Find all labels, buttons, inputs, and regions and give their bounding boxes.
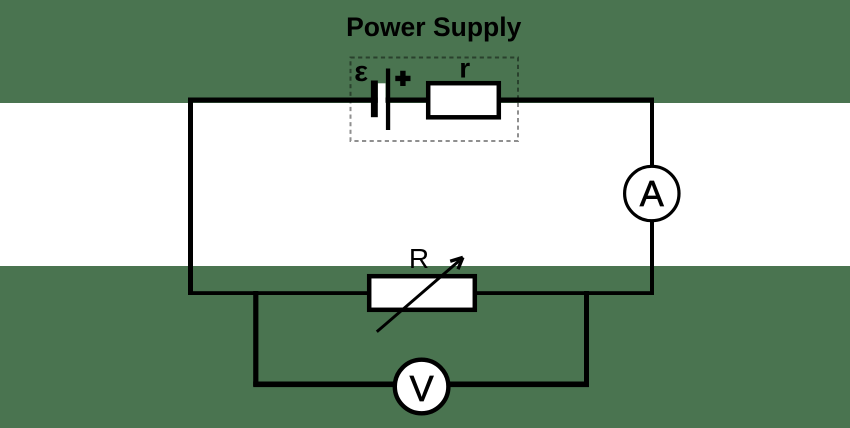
wire voltmeter-right <box>584 291 589 386</box>
voltmeter V1 <box>395 360 449 414</box>
resistor r (internal resistance) <box>428 83 499 117</box>
wire right <box>650 98 654 296</box>
svg-text:R: R <box>409 243 429 274</box>
power supply dashed boundary box <box>351 58 519 142</box>
wire bottom <box>188 291 654 295</box>
ammeter A1 <box>625 166 679 220</box>
svg-text:Power Supply: Power Supply <box>346 12 521 42</box>
battery B1 positive plate <box>386 69 390 131</box>
svg-text:A: A <box>640 173 664 214</box>
label plus polarity <box>395 71 410 86</box>
svg-text:V: V <box>410 368 434 409</box>
svg-text:ε: ε <box>354 56 368 88</box>
wire voltmeter-bottom <box>253 382 589 388</box>
battery B1 negative plate <box>371 81 378 118</box>
wire top <box>188 98 654 103</box>
variable resistor arrow <box>377 257 463 331</box>
wire left <box>188 98 193 296</box>
wire voltmeter-left <box>253 291 258 386</box>
battery B1 gap <box>378 83 386 132</box>
variable resistor R <box>369 276 475 310</box>
